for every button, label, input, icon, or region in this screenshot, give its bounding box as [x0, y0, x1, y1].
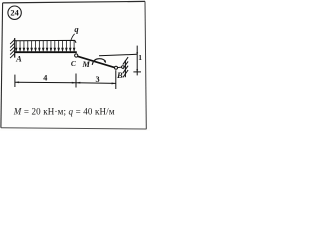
right wall line — [124, 60, 126, 77]
border frame bottom — [1, 128, 146, 129]
moment M arrowhead — [104, 60, 106, 63]
svg-text:B: B — [116, 70, 123, 80]
q leader line — [71, 34, 75, 41]
dimension 1: tick at B level — [133, 71, 141, 73]
border frame left — [1, 3, 3, 128]
inclined bar C-B — [78, 56, 115, 67]
dim arrow right of segment 4 — [72, 82, 76, 84]
svg-text:M: M — [81, 59, 90, 69]
svg-text:A: A — [15, 54, 22, 64]
right wall hatches — [123, 57, 128, 77]
extension line at A — [14, 75, 16, 87]
distributed load q: top line — [15, 40, 76, 43]
dim arrow left of segment 3 — [76, 82, 80, 84]
border frame right — [145, 1, 146, 129]
problem number badge 24 — [8, 6, 21, 19]
dimension 1: top arrowhead — [136, 52, 138, 55]
dim arrow left end — [15, 81, 19, 83]
svg-text:1: 1 — [138, 53, 142, 62]
pin C — [75, 54, 78, 57]
moment M arc — [92, 59, 105, 65]
dim arrow right end — [112, 82, 116, 84]
pin B — [115, 66, 118, 69]
svg-text:24: 24 — [10, 9, 19, 18]
svg-text:M = 20 кН·м; q = 40 кН/м: M = 20 кН·м; q = 40 кН/м — [13, 106, 115, 116]
fixed wall support at A — [10, 38, 15, 58]
extension line at B — [115, 70, 117, 89]
distributed load q: arrows — [15, 41, 74, 51]
border frame top — [3, 1, 145, 3]
wall pin at B support — [122, 66, 125, 69]
dimension line 4 and 3 — [15, 82, 116, 83]
extension line at C — [75, 74, 77, 88]
svg-text:3: 3 — [95, 75, 99, 84]
svg-text:4: 4 — [43, 73, 47, 82]
dimension 1: bottom arrowhead — [136, 69, 138, 72]
beam A-C — [14, 51, 76, 53]
horizontal reference line at right — [99, 54, 137, 56]
dimension 1: vertical line — [136, 46, 138, 76]
link bar at B — [117, 66, 121, 69]
